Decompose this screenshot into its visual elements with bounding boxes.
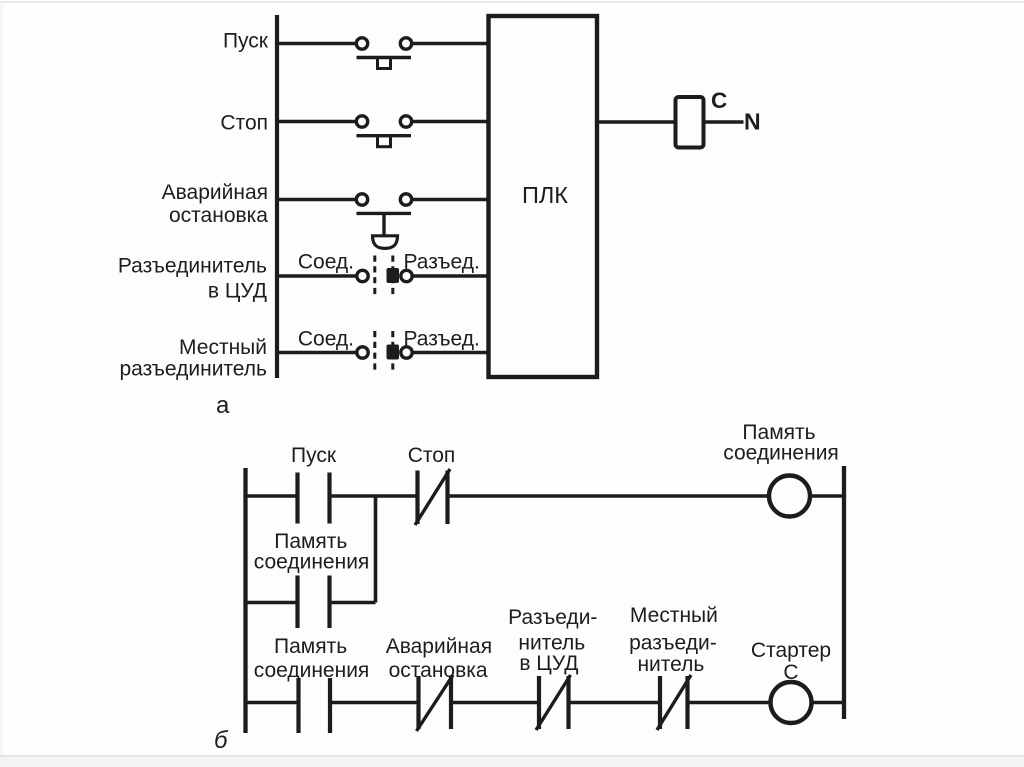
svg-text:ПЛК: ПЛК (522, 182, 568, 208)
label Разъединитель в ЦУД (rung2) (508, 606, 597, 675)
label Местный разъединитель (119, 336, 267, 381)
wire row5 right (412, 351, 490, 355)
pushbutton SB2 Стоп (NO) (356, 116, 411, 147)
wire rung2 seg5 (689, 701, 771, 705)
svg-text:Разъеди-: Разъеди- (508, 606, 597, 629)
label N (neutral) (744, 109, 761, 135)
wire row1 right (412, 42, 490, 46)
svg-text:Местный: Местный (179, 336, 267, 359)
svg-text:нитель: нитель (637, 653, 704, 676)
label Аварийная остановка (162, 181, 269, 227)
label Соед. row4 (298, 251, 354, 274)
svg-text:Аварийная: Аварийная (386, 635, 492, 658)
disconnector switch QS2 (local) (357, 331, 412, 372)
wire rung2 seg1 (246, 701, 298, 705)
svg-text:разъеди-: разъеди- (629, 632, 717, 655)
disconnector switch QS1 (ЦУД) (357, 256, 412, 297)
contact Стоп (NC) (415, 469, 450, 525)
wire row3 left (277, 198, 357, 202)
contactor coil C (676, 97, 704, 148)
PLC box U1 (489, 16, 598, 377)
svg-text:б: б (214, 727, 229, 754)
svg-text:N: N (744, 109, 761, 135)
svg-text:Разъединитель: Разъединитель (118, 255, 267, 278)
svg-text:соединения: соединения (254, 551, 370, 574)
svg-text:соединения: соединения (254, 659, 370, 682)
label а (216, 392, 230, 419)
label Местный разъединитель (rung2) (629, 604, 718, 676)
wire row2 left (277, 120, 357, 124)
left input bus (275, 15, 279, 378)
wire row2 right (412, 120, 490, 124)
svg-text:C: C (711, 88, 727, 113)
bottom band (0, 756, 1024, 767)
label Пуск (223, 30, 269, 53)
label Память соединения (coil1) (723, 421, 839, 465)
label Память соединения (branch contact) (254, 530, 370, 574)
label Стоп (rung1) (408, 444, 456, 467)
svg-text:Память: Память (274, 635, 347, 658)
svg-text:в ЦУД: в ЦУД (208, 280, 267, 303)
svg-text:Пуск: Пуск (223, 30, 269, 53)
wire branch seg2 (331, 601, 376, 605)
contact Аварийная остановка (NC) (417, 675, 454, 731)
wire row3 right (412, 198, 490, 202)
svg-text:Соед.: Соед. (298, 251, 354, 274)
svg-text:соединения: соединения (723, 442, 839, 465)
svg-text:Стоп: Стоп (408, 444, 456, 467)
coil Память соединения (769, 476, 810, 517)
svg-text:в ЦУД: в ЦУД (519, 652, 578, 675)
coil Стартер С (771, 682, 812, 723)
wire coil to N (704, 120, 744, 124)
wire row4 left (277, 274, 357, 278)
pushbutton SB3 emergency stop (mushroom) (356, 194, 411, 249)
svg-text:Соед.: Соед. (298, 328, 354, 351)
contact Память соединения rung2 (NO) (299, 678, 331, 733)
left rail (243, 468, 247, 733)
label Стартер С (coil2) (751, 639, 831, 684)
border frame left (1, 2, 3, 756)
label Соед. row5 (298, 328, 354, 351)
wire rung2 seg6 (812, 701, 845, 705)
wire rung2 seg4 (570, 701, 659, 705)
label Разъед. row5 (404, 328, 480, 351)
svg-text:Стартер: Стартер (751, 639, 831, 662)
wire rung1 seg4 (811, 494, 845, 498)
svg-text:Разъед.: Разъед. (404, 328, 480, 351)
wire rung2 seg2 (332, 701, 418, 705)
contact Память соединения branch (NO) (298, 576, 330, 629)
wire PLC output (597, 120, 676, 124)
wire rung1 seg2 (331, 494, 416, 498)
svg-text:а: а (216, 392, 230, 419)
label C (711, 88, 727, 113)
label Стоп (220, 112, 268, 135)
label б (214, 727, 229, 754)
svg-text:Разъед.: Разъед. (404, 251, 480, 274)
svg-text:Аварийная: Аварийная (162, 181, 268, 204)
contact Разъединитель в ЦУД (NC) (536, 675, 571, 730)
contact Пуск (NO) (298, 473, 330, 524)
svg-text:остановка: остановка (389, 659, 488, 682)
svg-text:остановка: остановка (169, 204, 268, 227)
wire branch seg1 (246, 601, 297, 605)
label Пуск (rung1) (291, 444, 337, 467)
wire rung1 seg3 (449, 494, 769, 498)
label Память соединения (rung2 contact) (254, 635, 370, 682)
wire row5 left (277, 351, 357, 355)
svg-text:Пуск: Пуск (291, 444, 337, 467)
contact Местный разъединитель (NC) (657, 675, 691, 730)
pushbutton SB1 Пуск (NO) (356, 38, 411, 69)
label Разъединитель в ЦУД (118, 255, 267, 303)
svg-text:Стоп: Стоп (220, 112, 268, 135)
wire rung2 seg3 (453, 701, 539, 705)
wire row4 right (412, 274, 490, 278)
right rail (842, 466, 846, 719)
svg-text:Местный: Местный (630, 604, 718, 627)
wire rung1 seg1 (246, 494, 297, 498)
border frame top (0, 1, 1024, 3)
label Разъед. row4 (404, 251, 480, 274)
wire row1 left (277, 42, 357, 46)
svg-text:разъединитель: разъединитель (119, 358, 267, 381)
branch riser wire (374, 496, 378, 603)
label Аварийная остановка (rung2) (386, 635, 492, 682)
